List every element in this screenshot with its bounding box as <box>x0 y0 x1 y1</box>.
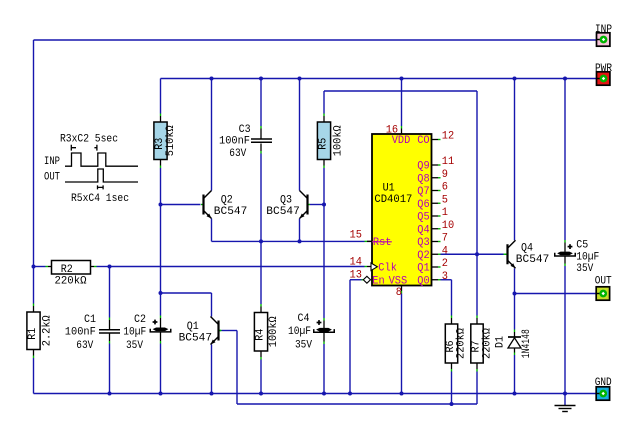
wire Clk net <box>110 266 365 268</box>
svg-text:Q7: Q7 <box>417 186 429 198</box>
node junction dots <box>32 265 36 269</box>
pin 12 CO <box>432 131 455 143</box>
wire Q3 base <box>310 204 325 206</box>
resistor R2 <box>52 261 91 288</box>
resistor R6 <box>445 316 468 372</box>
svg-text:Clk: Clk <box>378 262 397 274</box>
svg-text:Q2: Q2 <box>221 194 233 206</box>
svg-text:12: 12 <box>442 131 454 143</box>
svg-text:OUT: OUT <box>595 275 612 287</box>
svg-text:220kΩ: 220kΩ <box>482 328 494 359</box>
svg-text:VDD: VDD <box>392 135 411 147</box>
svg-text:BC547: BC547 <box>516 254 550 266</box>
svg-text:2.2kΩ: 2.2kΩ <box>42 315 54 346</box>
wire C5 column <box>564 79 566 241</box>
svg-text:100nF: 100nF <box>65 327 96 339</box>
svg-text:C1: C1 <box>84 314 96 326</box>
svg-text:Q1: Q1 <box>417 263 430 275</box>
capacitor C4 <box>288 313 334 352</box>
svg-text:63V: 63V <box>76 340 93 352</box>
pin 14 Clk <box>350 256 398 274</box>
svg-text:Q3: Q3 <box>280 194 292 206</box>
wire D1 column <box>514 294 516 330</box>
transistor Q2 <box>201 191 247 219</box>
svg-text:2: 2 <box>442 258 448 270</box>
svg-text:35V: 35V <box>295 340 312 352</box>
svg-text:Q4: Q4 <box>521 242 533 254</box>
svg-text:Q0: Q0 <box>417 275 429 287</box>
svg-text:U1: U1 <box>383 183 395 195</box>
wire R5/C4 column <box>323 91 325 114</box>
wire Q2 collector <box>211 79 213 191</box>
pin 5 Q6 <box>417 194 448 211</box>
svg-text:R1: R1 <box>27 327 39 339</box>
svg-text:GND: GND <box>595 377 612 389</box>
resistor R4 <box>254 304 280 360</box>
wire R2 left <box>34 266 46 268</box>
wire IC pin 16 VDD <box>401 79 403 127</box>
svg-text:510kΩ: 510kΩ <box>165 125 177 156</box>
resistor R7 <box>471 316 494 372</box>
pin 10 Q4 <box>417 220 454 237</box>
wire PWR rail <box>161 78 597 80</box>
wire Q2 base <box>161 204 201 206</box>
svg-text:35V: 35V <box>576 263 593 275</box>
svg-text:5: 5 <box>442 194 448 206</box>
wire Q3 emitter <box>299 219 301 242</box>
svg-text:En: En <box>372 275 384 287</box>
svg-text:CD4017: CD4017 <box>374 194 412 206</box>
wire Q3 collector <box>299 79 301 191</box>
svg-text:100nF: 100nF <box>219 135 250 147</box>
pin 11 Q9 <box>417 156 454 173</box>
wire Q2 emitter / Rst net <box>211 219 213 242</box>
svg-text:10: 10 <box>442 220 454 232</box>
port INP <box>595 24 612 46</box>
wire Q4 emitter / OUT <box>514 268 516 293</box>
wire Q1 base rail <box>222 330 238 332</box>
transistor Q4 <box>505 240 549 268</box>
svg-text:Q8: Q8 <box>417 173 429 185</box>
resistor R5 <box>317 114 344 169</box>
pin 6 Q7 <box>417 182 448 199</box>
resistor R3 <box>154 114 177 169</box>
svg-text:C4: C4 <box>298 313 310 325</box>
svg-text:11: 11 <box>442 156 455 168</box>
wire Q1 emitter <box>211 345 213 394</box>
svg-text:C2: C2 <box>134 314 146 326</box>
svg-text:1: 1 <box>442 207 449 219</box>
transistor Q1 <box>179 317 221 345</box>
svg-text:CO: CO <box>417 135 430 147</box>
pin 15 Rst <box>350 230 392 249</box>
svg-text:4: 4 <box>442 245 449 257</box>
svg-text:Q6: Q6 <box>417 199 429 211</box>
svg-text:1N4148: 1N4148 <box>521 329 533 358</box>
port PWR <box>595 63 612 85</box>
svg-text:16: 16 <box>386 124 398 136</box>
svg-text:10µF: 10µF <box>123 327 146 339</box>
svg-text:13: 13 <box>350 269 362 281</box>
wire R2 right <box>91 266 95 268</box>
svg-text:35V: 35V <box>126 340 143 352</box>
svg-text:220kΩ: 220kΩ <box>456 328 468 359</box>
pin 1 Q5 <box>417 207 448 224</box>
svg-text:BC547: BC547 <box>266 206 300 218</box>
svg-text:R4: R4 <box>255 328 267 340</box>
wire GND bottom rail <box>34 393 597 395</box>
svg-text:PWR: PWR <box>595 63 612 75</box>
wire R5 top to R7 top <box>324 90 477 92</box>
wire En to ground <box>362 279 364 281</box>
svg-text:6: 6 <box>442 182 448 194</box>
svg-text:14: 14 <box>350 256 363 268</box>
pin 13 En <box>350 269 408 287</box>
capacitor C2 <box>123 314 170 352</box>
svg-text:D1: D1 <box>494 336 506 348</box>
port OUT <box>595 275 612 300</box>
wire pin3 Q0 to R6 <box>441 279 452 281</box>
svg-text:10µF: 10µF <box>288 326 311 338</box>
svg-text:Rst: Rst <box>373 237 392 249</box>
transistor Q3 <box>266 191 310 219</box>
svg-text:BC547: BC547 <box>179 333 213 345</box>
svg-text:Q9: Q9 <box>417 161 429 173</box>
svg-text:7: 7 <box>442 233 448 245</box>
svg-text:R3xC2 5sec: R3xC2 5sec <box>60 133 118 145</box>
svg-text:100kΩ: 100kΩ <box>268 316 280 347</box>
svg-text:BC547: BC547 <box>214 206 248 218</box>
svg-text:INP: INP <box>44 156 60 168</box>
resistor R1 <box>27 304 54 359</box>
svg-text:9: 9 <box>442 169 448 181</box>
ground <box>555 394 576 412</box>
wire pin4 Q2out to Q4 base <box>441 253 504 255</box>
svg-text:63V: 63V <box>229 148 246 160</box>
svg-text:Q1: Q1 <box>187 321 199 333</box>
svg-text:100kΩ: 100kΩ <box>333 125 345 156</box>
capacitor C3 <box>219 124 272 160</box>
svg-text:R5: R5 <box>318 138 330 150</box>
wire IC pin 8 VSS <box>401 286 403 292</box>
wire Q1 collector link <box>161 292 212 294</box>
capacitor C5 <box>555 240 600 275</box>
pin 3 Q0 <box>417 271 448 288</box>
svg-text:C3: C3 <box>239 124 251 136</box>
svg-text:Q4: Q4 <box>417 224 430 236</box>
wire INP top rail <box>34 39 597 41</box>
diode D1 <box>494 329 533 358</box>
pin 2 Q1 <box>417 258 448 275</box>
svg-text:R5xC4 1sec: R5xC4 1sec <box>71 193 129 205</box>
svg-text:OUT: OUT <box>44 171 60 183</box>
svg-text:C5: C5 <box>576 240 588 252</box>
op-amp U1 CD4017 body <box>372 134 432 286</box>
svg-text:10µF: 10µF <box>576 251 599 263</box>
wire R6 bottom <box>451 372 453 405</box>
wire C3/R4 column <box>260 79 262 127</box>
waveform timing diagram <box>44 133 138 205</box>
wire Q4 collector <box>514 79 516 241</box>
svg-text:Q5: Q5 <box>417 212 429 224</box>
svg-text:3: 3 <box>442 271 448 283</box>
svg-text:INP: INP <box>595 24 612 36</box>
port GND <box>595 377 612 400</box>
svg-text:Q3: Q3 <box>417 237 429 249</box>
svg-text:8: 8 <box>396 287 402 299</box>
wire R7 bottom <box>476 372 478 405</box>
svg-text:15: 15 <box>350 230 362 242</box>
wire R3 column <box>160 79 162 114</box>
capacitor C1 <box>65 314 120 352</box>
pin 7 Q3 <box>417 233 448 250</box>
pin 9 Q8 <box>417 169 448 186</box>
svg-text:VSS: VSS <box>389 275 408 287</box>
wire left border INP net <box>33 40 35 304</box>
svg-text:R2: R2 <box>61 264 73 276</box>
pin 4 Q2 <box>417 245 448 262</box>
svg-text:Q2: Q2 <box>417 250 429 262</box>
wire C1 column <box>109 267 111 318</box>
svg-text:220kΩ: 220kΩ <box>55 275 87 287</box>
